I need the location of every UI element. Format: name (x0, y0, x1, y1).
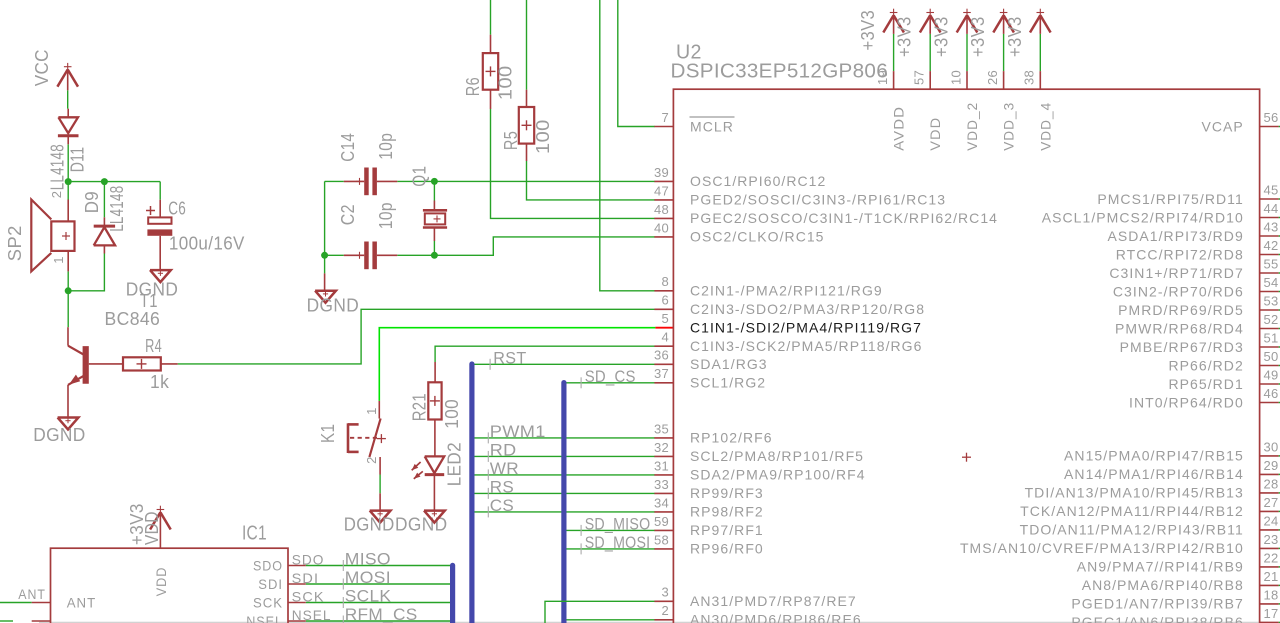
svg-text:VDD_4: VDD_4 (1037, 102, 1053, 151)
svg-text:6: 6 (661, 293, 669, 308)
svg-text:MOSI: MOSI (345, 569, 391, 587)
svg-text:RP96/RF0: RP96/RF0 (690, 541, 764, 557)
svg-text:ANT: ANT (18, 586, 46, 602)
svg-text:42: 42 (1264, 238, 1279, 253)
svg-text:PGEC1/AN6/RPI38/RB6: PGEC1/AN6/RPI38/RB6 (1071, 614, 1243, 623)
svg-text:2: 2 (661, 603, 669, 618)
svg-text:TCK/AN12/PMA11/RPI44/RB12: TCK/AN12/PMA11/RPI44/RB12 (1020, 503, 1244, 519)
svg-text:51: 51 (1264, 330, 1279, 345)
svg-text:100u/16V: 100u/16V (169, 233, 245, 253)
svg-text:AN30/PMD6/RPI86/RE6: AN30/PMD6/RPI86/RE6 (690, 612, 862, 623)
svg-text:RTCC/RPI72/RD8: RTCC/RPI72/RD8 (1116, 246, 1244, 262)
svg-text:100: 100 (496, 65, 516, 100)
svg-text:LL4148: LL4148 (48, 144, 68, 190)
svg-text:50: 50 (1264, 349, 1279, 364)
svg-text:OSC2/CLKO/RC15: OSC2/CLKO/RC15 (690, 229, 825, 245)
svg-text:NSEL: NSEL (292, 607, 332, 623)
svg-text:C14: C14 (338, 133, 358, 162)
svg-text:SDO: SDO (253, 557, 283, 573)
svg-text:C2IN1-/PMA2/RPI121/RG9: C2IN1-/PMA2/RPI121/RG9 (690, 283, 883, 299)
svg-text:PMCS1/RPI75/RD11: PMCS1/RPI75/RD11 (1097, 191, 1243, 207)
svg-text:T1: T1 (140, 291, 158, 311)
svg-text:D9: D9 (82, 191, 102, 213)
svg-text:21: 21 (1264, 569, 1279, 584)
svg-text:+3V3: +3V3 (895, 17, 915, 58)
svg-text:22: 22 (1264, 550, 1279, 565)
svg-text:SDA1/RG3: SDA1/RG3 (690, 356, 768, 372)
svg-text:27: 27 (1264, 495, 1279, 510)
svg-text:CS: CS (490, 497, 514, 515)
svg-text:SCK: SCK (292, 589, 325, 605)
svg-text:VDD_2: VDD_2 (964, 102, 980, 151)
svg-text:26: 26 (985, 70, 1000, 85)
svg-text:10: 10 (948, 70, 963, 85)
svg-text:+3V3: +3V3 (968, 17, 988, 58)
svg-text:MISO: MISO (345, 551, 391, 569)
svg-text:53: 53 (1264, 293, 1279, 308)
svg-text:3: 3 (661, 585, 669, 600)
svg-text:R21: R21 (410, 393, 430, 421)
svg-text:C1IN1-/SDI2/PMA4/RPI119/RG7: C1IN1-/SDI2/PMA4/RPI119/RG7 (690, 320, 922, 336)
svg-text:AN14/PMA1/RPI46/RB14: AN14/PMA1/RPI46/RB14 (1064, 466, 1244, 482)
svg-text:SCLK: SCLK (345, 588, 392, 606)
svg-text:1k: 1k (150, 372, 170, 392)
svg-text:AN15/PMA0/RPI47/RB15: AN15/PMA0/RPI47/RB15 (1064, 448, 1244, 464)
svg-text:PGED2/SOSCI/C3IN3-/RPI61/RC13: PGED2/SOSCI/C3IN3-/RPI61/RC13 (690, 192, 946, 208)
svg-text:SDA2/PMA9/RP100/RF4: SDA2/PMA9/RP100/RF4 (690, 467, 866, 483)
svg-text:AN9/PMA7//RPI41/RB9: AN9/PMA7//RPI41/RB9 (1077, 559, 1244, 575)
svg-text:43: 43 (1264, 219, 1279, 234)
svg-text:PMRD/RP69/RD5: PMRD/RP69/RD5 (1118, 302, 1244, 318)
svg-text:40: 40 (654, 220, 669, 235)
svg-text:4: 4 (661, 330, 669, 345)
svg-text:VDD: VDD (142, 511, 162, 545)
svg-text:5: 5 (661, 311, 669, 326)
svg-text:59: 59 (654, 514, 669, 529)
svg-text:2: 2 (364, 456, 379, 464)
svg-text:1: 1 (364, 407, 379, 415)
svg-text:C2IN3-/SDO2/PMA3/RP120/RG8: C2IN3-/SDO2/PMA3/RP120/RG8 (690, 301, 925, 317)
svg-text:TDO/AN11/PMA12/RPI43/RB11: TDO/AN11/PMA12/RPI43/RB11 (1020, 522, 1244, 538)
svg-text:RST: RST (493, 349, 526, 367)
svg-text:49: 49 (1264, 367, 1279, 382)
svg-text:8: 8 (661, 274, 669, 289)
svg-text:RP66/RD2: RP66/RD2 (1168, 357, 1243, 373)
svg-text:100: 100 (442, 399, 462, 429)
svg-text:29: 29 (1264, 458, 1279, 473)
svg-text:10p: 10p (376, 133, 396, 160)
svg-text:PMWR/RP68/RD4: PMWR/RP68/RD4 (1115, 320, 1244, 336)
svg-text:DGND: DGND (307, 296, 360, 316)
svg-text:SCL1/RG2: SCL1/RG2 (690, 375, 766, 391)
svg-text:55: 55 (1264, 256, 1279, 271)
svg-text:K1: K1 (318, 424, 338, 443)
svg-text:32: 32 (654, 440, 669, 455)
svg-text:100: 100 (533, 119, 553, 154)
svg-text:45: 45 (1264, 182, 1279, 197)
svg-text:46: 46 (1264, 386, 1279, 401)
svg-text:TMS/AN10/CVREF/PMA13/RPI42/RB1: TMS/AN10/CVREF/PMA13/RPI42/RB10 (960, 540, 1244, 556)
svg-text:24: 24 (1264, 513, 1279, 528)
svg-text:36: 36 (654, 348, 669, 363)
svg-text:ASDA1/RPI73/RD9: ASDA1/RPI73/RD9 (1107, 228, 1243, 244)
svg-text:7: 7 (661, 110, 669, 125)
svg-text:RP98/RF2: RP98/RF2 (690, 504, 764, 520)
svg-text:SCK: SCK (253, 594, 283, 610)
svg-text:Q1: Q1 (409, 166, 429, 187)
svg-text:RD: RD (490, 441, 517, 459)
svg-text:LED2: LED2 (445, 442, 465, 486)
svg-text:38: 38 (1022, 70, 1037, 85)
svg-text:10p: 10p (376, 202, 396, 229)
svg-text:RP97/RF1: RP97/RF1 (690, 522, 764, 538)
svg-text:SDO: SDO (292, 552, 325, 568)
svg-text:35: 35 (654, 421, 669, 436)
svg-text:MCLR: MCLR (690, 118, 734, 134)
svg-text:37: 37 (654, 366, 669, 381)
svg-text:R5: R5 (501, 131, 521, 150)
svg-text:1: 1 (51, 256, 66, 264)
svg-text:AN8/PMA6/RPI40/RB8: AN8/PMA6/RPI40/RB8 (1082, 577, 1244, 593)
svg-text:17: 17 (1264, 606, 1279, 621)
svg-text:23: 23 (1264, 532, 1279, 547)
svg-text:IC1: IC1 (242, 522, 267, 544)
svg-text:52: 52 (1264, 312, 1279, 327)
svg-text:DSPIC33EP512GP806: DSPIC33EP512GP806 (671, 61, 889, 83)
svg-text:D11: D11 (68, 147, 88, 173)
svg-text:TDI/AN13/PMA10/RPI45/RB13: TDI/AN13/PMA10/RPI45/RB13 (1025, 485, 1244, 501)
svg-text:C6: C6 (168, 199, 186, 219)
svg-text:C1IN3-/SCK2/PMA5/RP118/RG6: C1IN3-/SCK2/PMA5/RP118/RG6 (690, 338, 922, 354)
svg-text:SD_MISO: SD_MISO (585, 515, 651, 533)
svg-text:+3V3: +3V3 (858, 10, 878, 51)
svg-text:VDD_3: VDD_3 (1001, 102, 1017, 151)
svg-text:48: 48 (654, 202, 669, 217)
svg-text:33: 33 (654, 477, 669, 492)
svg-text:AVDD: AVDD (891, 106, 907, 151)
svg-text:31: 31 (654, 458, 669, 473)
svg-text:44: 44 (1264, 201, 1279, 216)
svg-text:18: 18 (1264, 587, 1279, 602)
svg-text:INT0/RP64/RD0: INT0/RP64/RD0 (1129, 394, 1244, 410)
svg-text:SD_CS: SD_CS (585, 368, 636, 386)
svg-text:47: 47 (654, 183, 669, 198)
svg-text:SDI: SDI (292, 570, 319, 586)
svg-text:AN31/PMD7/RP87/RE7: AN31/PMD7/RP87/RE7 (690, 593, 857, 609)
svg-text:58: 58 (654, 532, 669, 547)
svg-text:PMBE/RP67/RD3: PMBE/RP67/RD3 (1120, 339, 1244, 355)
svg-text:39: 39 (654, 165, 669, 180)
svg-text:OSC1/RPI60/RC12: OSC1/RPI60/RC12 (690, 173, 826, 189)
svg-text:R6: R6 (463, 77, 483, 96)
svg-text:30: 30 (1264, 439, 1279, 454)
svg-text:56: 56 (1264, 110, 1279, 125)
svg-text:R4: R4 (145, 336, 162, 356)
svg-text:SCL2/PMA8/RP101/RF5: SCL2/PMA8/RP101/RF5 (690, 448, 864, 464)
svg-text:C2: C2 (338, 204, 358, 225)
svg-text:RP102/RF6: RP102/RF6 (690, 430, 773, 446)
svg-text:SDI: SDI (258, 576, 283, 592)
svg-text:PGEC2/SOSCO/C3IN1-/T1CK/RPI62/: PGEC2/SOSCO/C3IN1-/T1CK/RPI62/RC14 (690, 210, 998, 226)
svg-text:+3V3: +3V3 (1005, 17, 1025, 58)
svg-text:LL4148: LL4148 (107, 186, 127, 232)
svg-text:WR: WR (490, 460, 519, 478)
svg-text:RP99/RF3: RP99/RF3 (690, 485, 764, 501)
svg-text:PWM1: PWM1 (490, 423, 546, 441)
svg-text:BC846: BC846 (105, 309, 161, 329)
svg-text:PGED1/AN7/RPI39/RB7: PGED1/AN7/RPI39/RB7 (1071, 596, 1243, 612)
svg-text:VCC: VCC (32, 49, 52, 86)
svg-text:28: 28 (1264, 476, 1279, 491)
svg-text:NSEL: NSEL (246, 613, 283, 623)
svg-text:ANT: ANT (67, 594, 97, 610)
svg-text:VDD: VDD (153, 567, 169, 597)
svg-text:C3IN1+/RP71/RD7: C3IN1+/RP71/RD7 (1109, 265, 1243, 281)
svg-text:ASCL1/PMCS2/RPI74/RD10: ASCL1/PMCS2/RPI74/RD10 (1042, 209, 1244, 225)
svg-text:54: 54 (1264, 275, 1279, 290)
svg-text:SD_MOSI: SD_MOSI (585, 534, 651, 552)
svg-text:+3V3: +3V3 (932, 17, 952, 58)
svg-text:DGND: DGND (344, 515, 395, 535)
svg-text:34: 34 (654, 495, 669, 510)
svg-text:2: 2 (49, 191, 64, 199)
svg-text:C3IN2-/RP70/RD6: C3IN2-/RP70/RD6 (1113, 283, 1244, 299)
svg-text:SP2: SP2 (5, 225, 25, 261)
svg-text:RP65/RD1: RP65/RD1 (1168, 376, 1243, 392)
svg-text:RFM_CS: RFM_CS (345, 606, 418, 623)
svg-text:57: 57 (912, 70, 927, 85)
svg-text:VDD: VDD (927, 117, 943, 151)
svg-text:VCAP: VCAP (1201, 118, 1243, 134)
svg-text:RS: RS (490, 478, 514, 496)
svg-text:DGND: DGND (33, 425, 85, 445)
